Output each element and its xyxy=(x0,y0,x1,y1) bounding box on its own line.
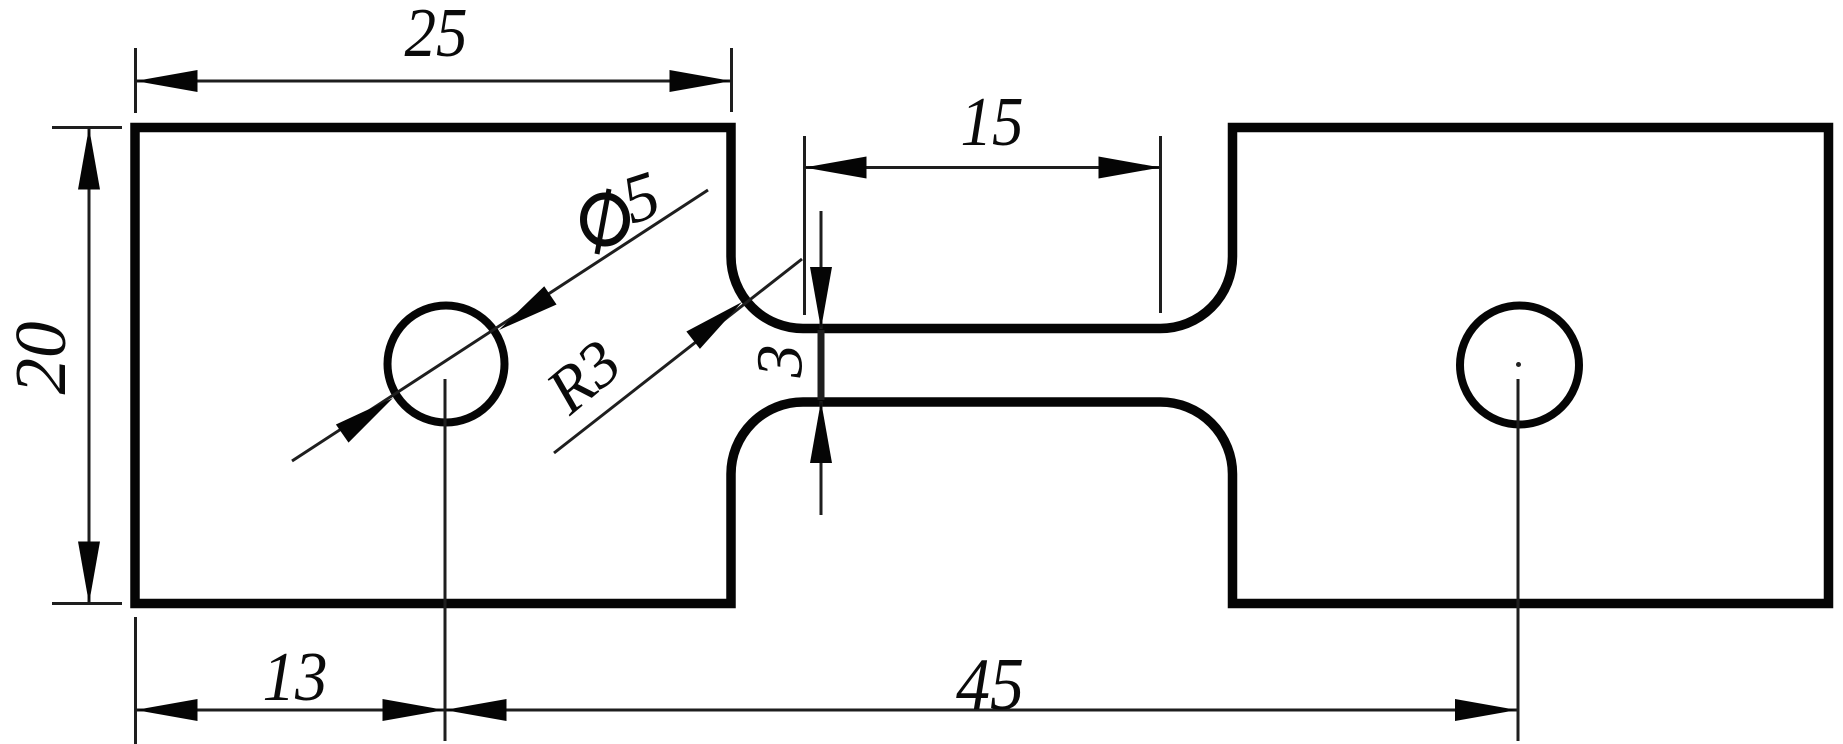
svg-text:45: 45 xyxy=(956,644,1024,725)
svg-text:3: 3 xyxy=(744,345,817,379)
svg-text:13: 13 xyxy=(262,638,327,716)
svg-text:5: 5 xyxy=(613,156,669,239)
svg-text:R3: R3 xyxy=(532,326,634,428)
svg-text:20: 20 xyxy=(0,322,81,395)
svg-text:15: 15 xyxy=(961,84,1024,161)
svg-text:25: 25 xyxy=(405,0,468,72)
